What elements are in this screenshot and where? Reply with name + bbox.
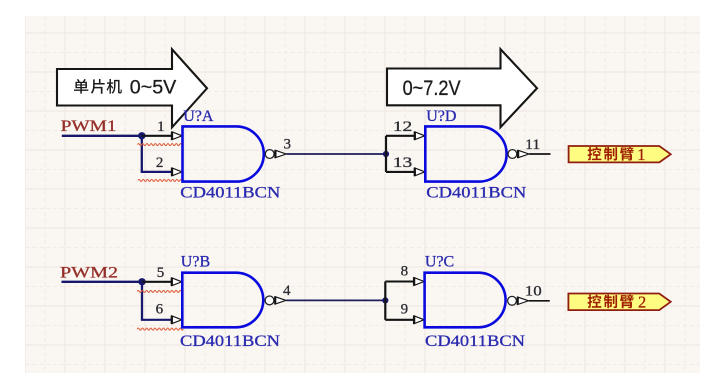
junction node at U?C input: [382, 297, 388, 303]
annotation arrow banner "0~7.2V": [387, 49, 537, 127]
svg-text:CD4011BCN: CD4011BCN: [425, 333, 526, 350]
output pin 3 triangle: [275, 150, 286, 157]
wire U?D.11 to port: [529, 153, 550, 155]
svg-text:2: 2: [156, 155, 164, 171]
svg-text:0~5V: 0~5V: [130, 77, 177, 99]
NAND gate U?D body: [425, 126, 506, 181]
svg-text:2: 2: [638, 293, 646, 312]
svg-text:10: 10: [525, 283, 542, 299]
output bubble U?A: [265, 150, 274, 159]
output bubble U?B: [265, 296, 274, 305]
svg-text:11: 11: [525, 137, 540, 153]
output bubble U?D: [508, 150, 517, 159]
wire stub pin 1: [142, 135, 173, 137]
svg-text:5: 5: [157, 265, 165, 281]
NAND gate U?C body: [425, 273, 506, 328]
wire junction drop vertical: [141, 135, 143, 172]
pin 1 input triangle: [172, 132, 182, 140]
svg-text:8: 8: [401, 264, 409, 280]
pin 6 input triangle: [172, 316, 182, 324]
wire net U?B.4 to U?C inputs: [286, 299, 385, 301]
output pin 11 triangle: [518, 150, 529, 157]
wire PWM1 horizontal: [62, 135, 142, 137]
NAND gate U?B body: [182, 273, 263, 328]
junction node PWM1: [138, 132, 145, 139]
svg-text:3: 3: [284, 137, 292, 153]
svg-text:0~7.2V: 0~7.2V: [403, 77, 462, 100]
wire vertical U?D input branch: [385, 136, 387, 172]
svg-text:13: 13: [393, 155, 413, 171]
svg-text:CD4011BCN: CD4011BCN: [180, 185, 281, 202]
wire PWM2 horizontal: [62, 281, 143, 283]
svg-text:CD4011BCN: CD4011BCN: [180, 333, 281, 350]
wire net U?A.3 to U?D inputs: [286, 153, 386, 155]
pin 12 input triangle: [415, 132, 425, 140]
svg-text:1: 1: [157, 119, 165, 135]
wire stub pin 12: [386, 135, 416, 137]
port 控制臂1: [569, 145, 671, 164]
NAND gate U?A body: [183, 126, 264, 181]
error squiggle under pin 1 wire: [138, 144, 182, 146]
svg-text:CD4011BCN: CD4011BCN: [426, 185, 527, 202]
pin 13 input triangle: [415, 168, 425, 176]
svg-text:1: 1: [637, 145, 645, 164]
svg-text:U?B: U?B: [181, 254, 210, 271]
port 控制臂2: [568, 293, 670, 312]
pin 9 input triangle: [414, 316, 424, 324]
wire to pin 2: [141, 171, 173, 173]
svg-text:U?D: U?D: [426, 108, 456, 125]
svg-text:4: 4: [283, 283, 291, 299]
wire vertical U?C input branch: [384, 282, 386, 320]
annotation arrow banner "单片机 0~5V": [57, 49, 207, 127]
error squiggle under pin 6 wire: [137, 328, 183, 330]
output bubble U?C: [508, 296, 517, 305]
pin 5 input triangle: [172, 278, 182, 286]
output pin 10 triangle: [518, 297, 529, 304]
wire U?C.10 to port: [529, 300, 550, 302]
svg-text:U?C: U?C: [425, 253, 454, 270]
wire stub pin 13: [386, 171, 416, 173]
junction node at U?D input: [383, 151, 389, 157]
output pin 4 triangle: [275, 297, 286, 304]
svg-text:12: 12: [393, 119, 413, 135]
error squiggle under pin 5 wire: [137, 290, 181, 292]
wire stub pin 8: [385, 280, 415, 282]
pin 2 input triangle: [172, 168, 182, 176]
svg-text:9: 9: [401, 301, 409, 317]
error squiggle under pin 2 wire: [138, 179, 182, 181]
svg-text:6: 6: [156, 302, 164, 318]
svg-text:PWM1: PWM1: [61, 118, 117, 135]
junction node PWM2: [138, 278, 145, 285]
pin 8 input triangle: [414, 278, 424, 286]
wire junction drop vertical (row 2): [141, 281, 143, 320]
svg-text:U?A: U?A: [183, 108, 214, 125]
svg-text:PWM2: PWM2: [60, 265, 118, 282]
wire stub pin 5: [142, 281, 172, 283]
wire stub pin 9: [385, 319, 415, 321]
wire to pin 6: [141, 319, 173, 321]
